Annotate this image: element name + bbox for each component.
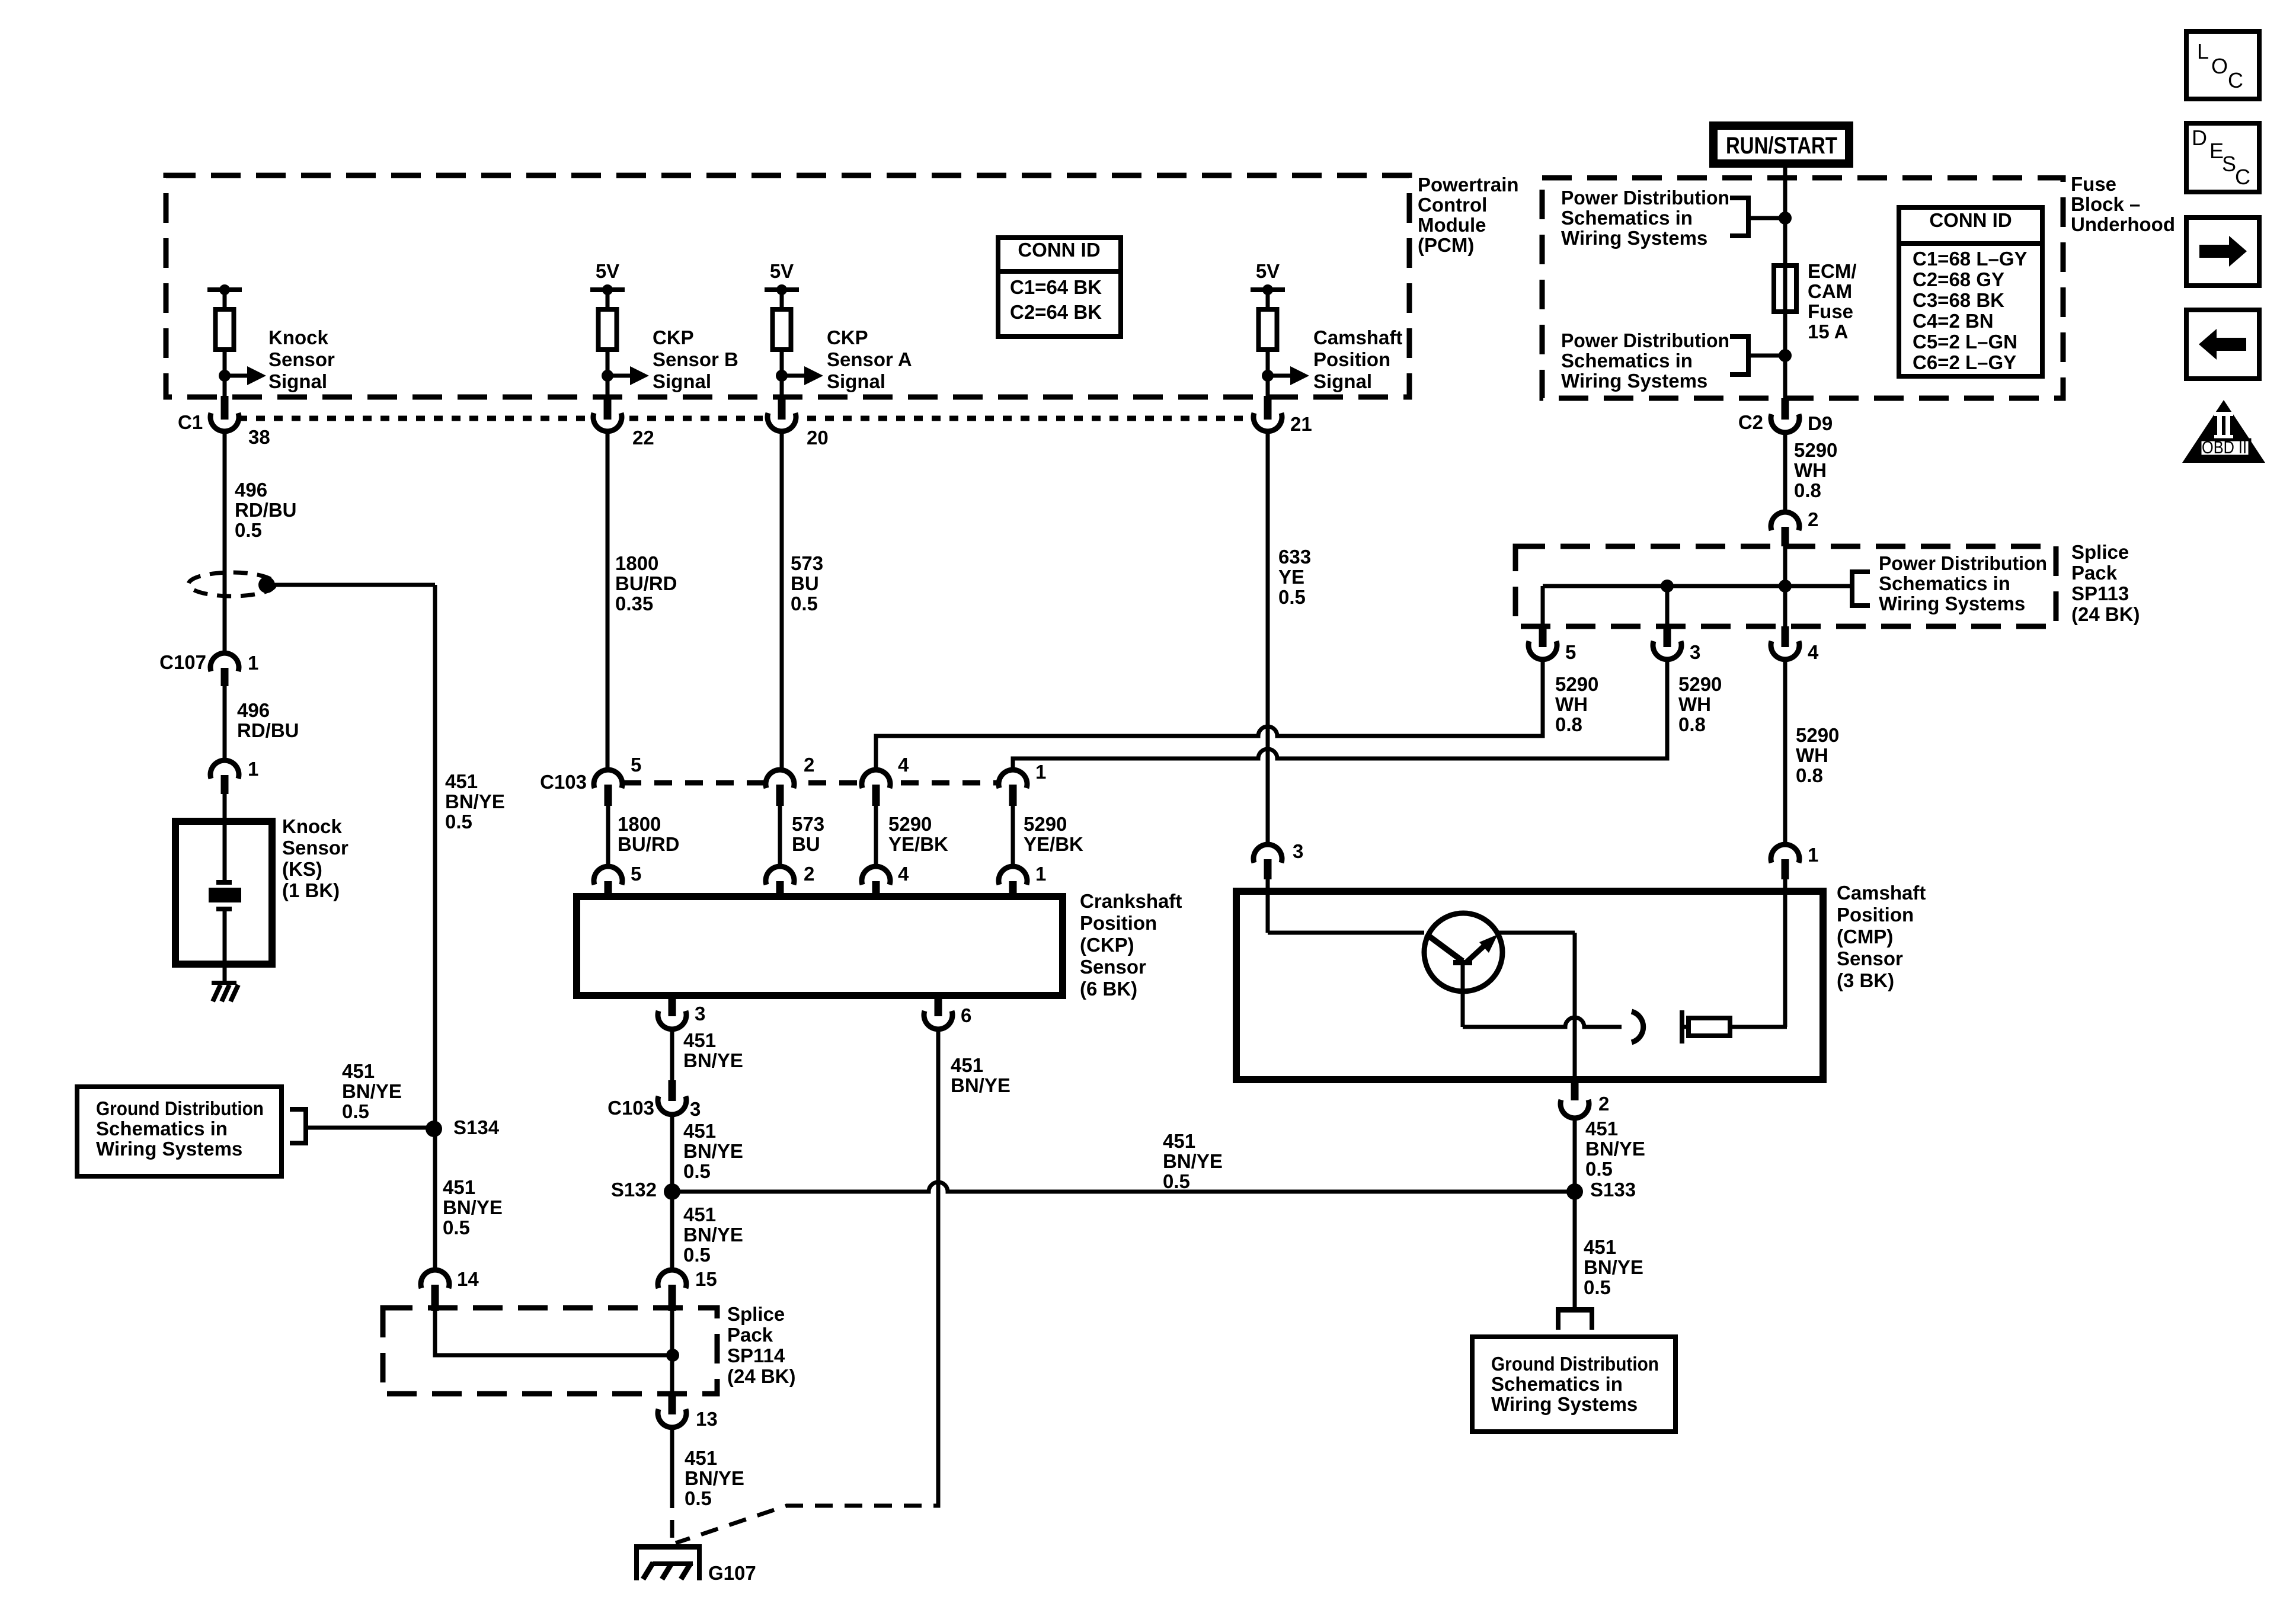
- bracket from ground distribution box: [290, 1107, 434, 1145]
- svg-text:Splice: Splice: [727, 1303, 785, 1325]
- svg-text:0.5: 0.5: [791, 593, 818, 614]
- crankshaft position CKP sensor box: [577, 897, 1063, 996]
- svg-text:Underhood: Underhood: [2071, 213, 2175, 235]
- svg-text:451: 451: [951, 1054, 983, 1076]
- svg-text:C5=2 L–GN: C5=2 L–GN: [1913, 331, 2017, 353]
- fuse ECM/CAM 15 A: [1774, 265, 1796, 312]
- svg-text:Position: Position: [1080, 912, 1157, 934]
- wire label 573 BU 0.5: [791, 552, 823, 614]
- in-line connector C103 pin 3: [658, 1080, 686, 1115]
- svg-text:BN/YE: BN/YE: [951, 1074, 1011, 1096]
- chassis ground (knock sensor): [212, 981, 238, 1001]
- PCM CONN ID table (C1=64 BK, C2=64 BK): [998, 238, 1121, 337]
- svg-text:(KS): (KS): [282, 858, 322, 880]
- svg-text:496: 496: [237, 699, 270, 721]
- svg-text:(PCM): (PCM): [1418, 234, 1474, 256]
- wire label 451 BN/YE 0.5 (below S132): [683, 1204, 743, 1266]
- pin label 1 (C107): [248, 652, 258, 674]
- OBD II triangle icon: [2182, 400, 2265, 463]
- svg-text:451: 451: [683, 1204, 716, 1225]
- svg-text:Power Distribution: Power Distribution: [1879, 552, 2047, 574]
- label: Crankshaft Position (CKP) Sensor (6 BK): [1080, 890, 1182, 1000]
- CMP pin 3 connector (top): [1253, 844, 1282, 879]
- svg-text:Wiring Systems: Wiring Systems: [1491, 1393, 1638, 1415]
- pin label 5 (C103): [631, 754, 641, 776]
- SP113 internal bus wire: [1543, 546, 1852, 626]
- svg-text:3: 3: [695, 1003, 705, 1025]
- svg-text:YE: YE: [1278, 566, 1304, 588]
- svg-text:Camshaft: Camshaft: [1837, 882, 1926, 904]
- svg-text:22: 22: [632, 427, 654, 449]
- svg-text:1: 1: [1808, 844, 1818, 866]
- pin label 4 (SP113): [1808, 641, 1819, 663]
- svg-text:2: 2: [804, 863, 814, 885]
- pin label 2 (CKP): [804, 863, 814, 885]
- label C107: [159, 651, 206, 673]
- svg-text:5290: 5290: [1024, 813, 1067, 835]
- svg-text:Signal: Signal: [268, 370, 327, 392]
- svg-text:0.5: 0.5: [443, 1217, 470, 1238]
- svg-text:SP114: SP114: [727, 1345, 785, 1366]
- CKP pin 3 connector (bottom): [658, 996, 686, 1029]
- wire SP113-3 to C103-1 (hops 633 wire): [1013, 660, 1667, 772]
- svg-text:14: 14: [457, 1268, 479, 1290]
- svg-text:0.5: 0.5: [1585, 1158, 1613, 1180]
- pin label 2 (CMP bottom): [1598, 1093, 1609, 1115]
- svg-text:Crankshaft: Crankshaft: [1080, 890, 1182, 912]
- svg-text:Splice: Splice: [2071, 541, 2129, 563]
- svg-text:RUN/START: RUN/START: [1726, 133, 1837, 159]
- svg-text:(CKP): (CKP): [1080, 934, 1134, 956]
- svg-text:0.35: 0.35: [615, 593, 653, 614]
- wire label 573 BU (lower): [792, 813, 824, 855]
- pin label 21: [1290, 413, 1312, 435]
- svg-text:3: 3: [1293, 840, 1303, 862]
- CMP pin 1 connector (top): [1771, 844, 1799, 879]
- splice pack connector pin 2 (top): [1771, 512, 1799, 546]
- svg-text:0.5: 0.5: [445, 811, 472, 833]
- pin label 20: [807, 427, 829, 449]
- svg-text:1: 1: [1035, 761, 1046, 783]
- wire label 496 RD/BU 0.5: [235, 479, 297, 541]
- svg-text:5290: 5290: [1555, 673, 1598, 695]
- svg-text:Schematics in: Schematics in: [96, 1118, 228, 1140]
- svg-text:CAM: CAM: [1808, 280, 1852, 302]
- svg-text:BN/YE: BN/YE: [1163, 1150, 1223, 1172]
- svg-text:C: C: [2228, 68, 2243, 92]
- svg-text:C103: C103: [540, 771, 587, 793]
- svg-text:YE/BK: YE/BK: [888, 833, 948, 855]
- svg-text:5V: 5V: [596, 260, 619, 282]
- svg-text:RD/BU: RD/BU: [237, 719, 299, 741]
- connector C1 pin 21 (camshaft): [1253, 396, 1282, 431]
- svg-text:Sensor A: Sensor A: [827, 348, 912, 370]
- connector C1 pin 38 (knock): [210, 396, 239, 431]
- CMP transistor internals: [1426, 934, 1498, 1027]
- connector C1 dotted line: [238, 416, 1251, 421]
- svg-text:D: D: [2192, 126, 2207, 150]
- pin label 14: [457, 1268, 479, 1290]
- svg-text:0.5: 0.5: [342, 1100, 369, 1122]
- Ground Distribution Schematics box (right): [1472, 1337, 1675, 1432]
- DESC icon box: [2186, 123, 2259, 192]
- svg-text:Wiring Systems: Wiring Systems: [1561, 227, 1707, 249]
- pin label 2 (C103): [804, 754, 814, 776]
- svg-text:BN/YE: BN/YE: [445, 790, 505, 812]
- wire label 5290 YE/BK (pin 4): [888, 813, 948, 855]
- svg-text:Ground Distribution: Ground Distribution: [96, 1097, 264, 1119]
- svg-text:0.5: 0.5: [1163, 1170, 1190, 1192]
- svg-text:BU: BU: [791, 572, 819, 594]
- pin label 3 (CKP bottom): [695, 1003, 705, 1025]
- CKP pin 6 connector (bottom): [924, 996, 952, 1029]
- svg-text:Block –: Block –: [2071, 193, 2140, 215]
- CMP pickup coil arc: [1632, 1012, 1643, 1042]
- wire 5290 WH from C2-D9 to SP113-2: [1783, 433, 1787, 512]
- bracket to power distribution (lower): [1730, 334, 1785, 377]
- forward arrow icon box: [2186, 217, 2259, 286]
- svg-text:4: 4: [898, 754, 909, 776]
- svg-text:S133: S133: [1590, 1179, 1636, 1201]
- junction dot (upper feed): [1779, 212, 1792, 225]
- C103 pin 2 connector: [766, 770, 794, 806]
- label S134: [453, 1116, 500, 1138]
- shield tap junction dot: [258, 577, 275, 593]
- label: Powertrain Control Module (PCM): [1418, 174, 1519, 256]
- svg-text:BN/YE: BN/YE: [683, 1140, 743, 1162]
- svg-text:451: 451: [683, 1029, 716, 1051]
- svg-text:451: 451: [1584, 1236, 1616, 1258]
- SP113 pin 3 connector: [1653, 626, 1681, 660]
- svg-text:451: 451: [685, 1447, 717, 1469]
- shield ellipse (dashed) on knock wire: [188, 572, 275, 596]
- label G107: [708, 1562, 756, 1584]
- svg-text:21: 21: [1290, 413, 1312, 435]
- label: Camshaft Position (CMP) Sensor (3 BK): [1837, 882, 1926, 991]
- svg-text:5: 5: [631, 863, 641, 885]
- CMP pin 2 connector (bottom): [1560, 1080, 1589, 1118]
- pin label 5 (SP113): [1565, 641, 1576, 663]
- wire C103-3 to S132: [670, 1115, 674, 1269]
- SP114 internal wires: [435, 1311, 673, 1394]
- wire 1800 BU/RD from C1-22 to C103-5: [606, 431, 610, 772]
- wire 451 BN/YE from SP114-13 to G107 (becomes dashed): [670, 1427, 674, 1544]
- pin label 3 (C103): [690, 1098, 701, 1120]
- pin label 6 (CKP bottom): [961, 1004, 971, 1026]
- wire from fuse to C2 terminal: [1783, 312, 1787, 398]
- svg-text:(3 BK): (3 BK): [1837, 969, 1894, 991]
- wire label 451 BN/YE 0.5 (to G107): [685, 1447, 744, 1509]
- label: Splice Pack SP113 (24 BK): [2071, 541, 2140, 625]
- svg-text:Knock: Knock: [268, 327, 329, 348]
- svg-text:RD/BU: RD/BU: [235, 499, 297, 521]
- wire label 451 BN/YE 0.5 (above S133): [1585, 1118, 1645, 1180]
- svg-text:CKP: CKP: [827, 327, 868, 348]
- bracket to power distribution (upper): [1730, 196, 1785, 238]
- wire label 5290 YE/BK (pin 1): [1024, 813, 1083, 855]
- wire C103-4 to CKP pin 4: [874, 806, 878, 869]
- SP113 pin 4 connector: [1771, 626, 1799, 660]
- wire label 1800 BU/RD 0.35: [615, 552, 677, 614]
- wire SP113-4 down to CMP pin 1: [1783, 660, 1787, 844]
- dashed ground path from CKP-6 wire to G107: [676, 1493, 938, 1543]
- label: Camshaft Position Signal: [1313, 327, 1402, 392]
- svg-text:5290: 5290: [888, 813, 932, 835]
- wire label 5290 WH 0.8: [1794, 439, 1837, 501]
- svg-text:S134: S134: [453, 1116, 500, 1138]
- svg-text:0.8: 0.8: [1555, 713, 1582, 735]
- svg-text:4: 4: [898, 863, 909, 885]
- label: Power Distribution Schematics in Wiring Systems (lower): [1561, 329, 1729, 392]
- svg-text:CONN ID: CONN ID: [1018, 239, 1100, 261]
- svg-text:Signal: Signal: [653, 370, 711, 392]
- svg-text:Schematics in: Schematics in: [1491, 1373, 1623, 1395]
- svg-text:BN/YE: BN/YE: [1584, 1256, 1643, 1278]
- svg-text:YE/BK: YE/BK: [1024, 833, 1083, 855]
- SP113 pin 5 connector: [1528, 626, 1557, 660]
- svg-text:Powertrain: Powertrain: [1418, 174, 1519, 196]
- svg-text:Module: Module: [1418, 214, 1486, 236]
- svg-text:BN/YE: BN/YE: [683, 1224, 743, 1246]
- label: Fuse Block - Underhood: [2071, 173, 2175, 235]
- svg-text:Schematics in: Schematics in: [1561, 207, 1693, 229]
- svg-text:BN/YE: BN/YE: [443, 1196, 503, 1218]
- Splice Pack SP114 dashed box: [383, 1308, 717, 1394]
- svg-text:4: 4: [1808, 641, 1819, 663]
- splice S133 junction: [1566, 1183, 1583, 1200]
- wire label 5290 WH 0.8 (pin 5): [1555, 673, 1598, 735]
- label: C1: [178, 411, 203, 433]
- svg-text:20: 20: [807, 427, 829, 449]
- Ground Distribution Schematics box (left): [77, 1087, 282, 1176]
- svg-text:0.5: 0.5: [1278, 586, 1306, 608]
- svg-text:D9: D9: [1808, 412, 1833, 434]
- svg-text:5: 5: [631, 754, 641, 776]
- svg-text:(24 BK): (24 BK): [727, 1365, 796, 1387]
- pin label 1 (KS): [248, 758, 258, 780]
- SP114 pin 13 connector: [658, 1394, 686, 1427]
- svg-text:L: L: [2197, 39, 2209, 63]
- CKP sensor B pull-up with 5V (PCM internal): [590, 260, 649, 396]
- svg-text:Schematics in: Schematics in: [1879, 572, 2010, 594]
- wire label 451 BN/YE 0.5 (above S132): [683, 1120, 743, 1182]
- pin label 2 (SP113 in): [1808, 508, 1818, 530]
- svg-text:Position: Position: [1313, 348, 1390, 370]
- svg-text:0.5: 0.5: [235, 519, 262, 541]
- ground splice bus wire S132 to S133 (hops CKP-6 wire): [672, 1182, 1575, 1192]
- ground G107 symbol: [634, 1544, 702, 1580]
- svg-text:Pack: Pack: [2071, 562, 2118, 584]
- CKP sensor pin 2: [766, 866, 794, 900]
- label C2: [1738, 411, 1763, 433]
- svg-text:BN/YE: BN/YE: [685, 1467, 744, 1489]
- svg-text:O: O: [2211, 54, 2228, 78]
- connector C1 pin 20 (CKP A): [768, 396, 796, 431]
- CKP sensor pin 5: [594, 866, 622, 900]
- svg-text:5290: 5290: [1796, 724, 1839, 746]
- connector C1 pin 22 (CKP B): [593, 396, 622, 431]
- svg-text:Knock: Knock: [282, 815, 343, 837]
- pin label 5 (CKP): [631, 863, 641, 885]
- wire label 451 BN/YE 0.5 (S134 feed): [342, 1060, 402, 1122]
- svg-text:(24 BK): (24 BK): [2071, 603, 2140, 625]
- svg-text:5V: 5V: [1256, 260, 1280, 282]
- wire label 5290 WH 0.8 (pin 4): [1796, 724, 1839, 786]
- bracket into ground distribution box (S133): [1556, 1307, 1594, 1330]
- svg-text:3: 3: [690, 1098, 701, 1120]
- svg-text:5V: 5V: [770, 260, 794, 282]
- svg-text:BU/RD: BU/RD: [618, 833, 680, 855]
- SP114 pin 14 connector: [421, 1270, 449, 1311]
- svg-text:Fuse: Fuse: [2071, 173, 2116, 195]
- svg-text:BU/RD: BU/RD: [615, 572, 677, 594]
- svg-text:Wiring Systems: Wiring Systems: [96, 1138, 242, 1160]
- svg-text:573: 573: [792, 813, 824, 835]
- pin label 1 (CMP): [1808, 844, 1818, 866]
- label: Knock Sensor (KS) (1 BK): [282, 815, 348, 901]
- C103 pin 5 connector: [594, 770, 622, 806]
- svg-text:Sensor: Sensor: [268, 348, 335, 370]
- C103 pin 1 connector: [999, 770, 1027, 806]
- wire label 633 YE 0.5: [1278, 546, 1311, 608]
- svg-text:2: 2: [1808, 508, 1818, 530]
- svg-text:451: 451: [1163, 1130, 1195, 1152]
- svg-text:C2=68 GY: C2=68 GY: [1913, 268, 2004, 290]
- svg-text:0.8: 0.8: [1794, 479, 1821, 501]
- wire label 451 BN/YE 0.5 (below S133): [1584, 1236, 1643, 1298]
- back arrow icon box: [2186, 310, 2259, 379]
- wire into knock sensor: [223, 794, 227, 821]
- label: Power Distribution Schematics in Wiring Systems (SP113): [1879, 552, 2047, 614]
- svg-text:Signal: Signal: [827, 370, 885, 392]
- svg-text:Camshaft: Camshaft: [1313, 327, 1402, 348]
- svg-text:BN/YE: BN/YE: [342, 1080, 402, 1102]
- svg-text:CKP: CKP: [653, 327, 694, 348]
- svg-text:15: 15: [695, 1268, 717, 1290]
- wire label 1800 BU/RD (lower): [618, 813, 680, 855]
- svg-text:C4=2 BN: C4=2 BN: [1913, 310, 1994, 332]
- svg-text:Schematics in: Schematics in: [1561, 350, 1693, 372]
- svg-text:38: 38: [248, 426, 270, 448]
- SP113 junction dot at pin 3 branch: [1661, 580, 1674, 593]
- svg-text:Wiring Systems: Wiring Systems: [1879, 593, 2025, 614]
- label: Knock Sensor Signal: [268, 327, 335, 392]
- splice S132 junction: [664, 1183, 680, 1200]
- svg-text:1: 1: [248, 758, 258, 780]
- svg-text:C6=2 L–GY: C6=2 L–GY: [1913, 351, 2016, 373]
- svg-text:S: S: [2222, 152, 2236, 176]
- svg-text:Power Distribution: Power Distribution: [1561, 329, 1729, 351]
- svg-text:6: 6: [961, 1004, 971, 1026]
- label C103 (row): [540, 771, 587, 793]
- svg-text:5290: 5290: [1794, 439, 1837, 461]
- fuse block CONN ID table: [1899, 207, 2042, 376]
- CMP internal: signal wire to transistor: [1268, 879, 1424, 933]
- in-line connector C107 pin 1: [210, 653, 239, 686]
- pin label D9: [1808, 412, 1833, 434]
- svg-text:C3=68 BK: C3=68 BK: [1913, 289, 2004, 311]
- CMP transistor circle: [1424, 913, 1502, 991]
- svg-text:573: 573: [791, 552, 823, 574]
- svg-text:WH: WH: [1796, 744, 1828, 766]
- camshaft position CMP sensor box: [1236, 891, 1823, 1080]
- wire label 5290 WH 0.8 (pin 3): [1678, 673, 1722, 735]
- SP114 junction dot: [666, 1349, 679, 1362]
- svg-text:496: 496: [235, 479, 267, 501]
- splice S134 junction: [426, 1121, 442, 1137]
- svg-text:C1: C1: [178, 411, 203, 433]
- pin label 13: [696, 1408, 718, 1430]
- svg-text:0.5: 0.5: [685, 1487, 712, 1509]
- svg-text:WH: WH: [1794, 459, 1827, 481]
- label C103 (pin 3): [607, 1097, 654, 1119]
- svg-text:2: 2: [1598, 1093, 1609, 1115]
- junction dot (lower feed): [1779, 349, 1792, 362]
- svg-text:3: 3: [1690, 641, 1700, 663]
- wire SP113-5 to C103-4 (hops 633 wire): [876, 660, 1543, 772]
- wire 451 BN/YE from CMP-2 to S133: [1573, 1118, 1577, 1307]
- svg-text:Wiring Systems: Wiring Systems: [1561, 370, 1707, 392]
- knock sensor signal pull-up (PCM internal): [207, 284, 266, 396]
- wire label 451 BN/YE 0.5 (bus): [1163, 1130, 1223, 1192]
- connector C103 dashed line: [593, 780, 1028, 786]
- svg-text:0.8: 0.8: [1678, 713, 1706, 735]
- svg-text:BN/YE: BN/YE: [1585, 1138, 1645, 1160]
- svg-text:(CMP): (CMP): [1837, 926, 1893, 948]
- label: Power Distribution Schematics in Wiring Systems (upper): [1561, 187, 1729, 249]
- svg-text:Pack: Pack: [727, 1324, 773, 1346]
- knock sensor KS box: [175, 821, 272, 964]
- svg-text:C107: C107: [159, 651, 206, 673]
- SP114 pin 15 connector: [658, 1270, 686, 1311]
- bracket to power distribution (SP113): [1850, 569, 1870, 608]
- svg-text:Sensor B: Sensor B: [653, 348, 738, 370]
- camshaft position signal pull-up with 5V (PCM internal): [1251, 260, 1309, 396]
- svg-text:Control: Control: [1418, 194, 1487, 216]
- pin label 3 (SP113): [1690, 641, 1700, 663]
- svg-text:Signal: Signal: [1313, 370, 1372, 392]
- svg-text:Fuse: Fuse: [1808, 300, 1853, 322]
- svg-text:ECM/: ECM/: [1808, 260, 1857, 282]
- svg-text:(6 BK): (6 BK): [1080, 978, 1137, 1000]
- svg-text:C1=68 L–GY: C1=68 L–GY: [1913, 248, 2028, 270]
- pin label 4 (C103): [898, 754, 909, 776]
- SP113 junction dot at pin 4 branch: [1779, 580, 1792, 593]
- svg-text:G107: G107: [708, 1562, 756, 1584]
- pin label 15: [695, 1268, 717, 1290]
- svg-text:1800: 1800: [615, 552, 658, 574]
- svg-text:C2=64 BK: C2=64 BK: [1010, 301, 1102, 323]
- svg-text:Position: Position: [1837, 904, 1914, 926]
- wire label 451 BN/YE 0.5 (drain wire): [445, 770, 505, 833]
- Splice Pack SP113 dashed box: [1515, 546, 2056, 626]
- svg-text:1: 1: [1035, 863, 1046, 885]
- label: CKP Sensor A Signal: [827, 327, 912, 392]
- connector C2 pin D9: [1771, 398, 1799, 433]
- pin label 1 (C103): [1035, 761, 1046, 783]
- pin label 3 (CMP): [1293, 840, 1303, 862]
- wire S134 down to SP114 pin 14: [433, 1129, 437, 1272]
- wire C103-5 to CKP pin 5: [606, 806, 610, 869]
- label: ECM/CAM Fuse 15 A: [1808, 260, 1857, 343]
- svg-text:C1=64 BK: C1=64 BK: [1010, 276, 1102, 298]
- pin label 22: [632, 427, 654, 449]
- PCM (Powertrain Control Module) dashed box: [166, 175, 1409, 397]
- wire 451 BN/YE from CKP-6 down (hops S132 wire): [936, 1029, 941, 1493]
- svg-text:C103: C103: [607, 1097, 654, 1119]
- svg-text:5290: 5290: [1678, 673, 1722, 695]
- svg-text:451: 451: [342, 1060, 375, 1082]
